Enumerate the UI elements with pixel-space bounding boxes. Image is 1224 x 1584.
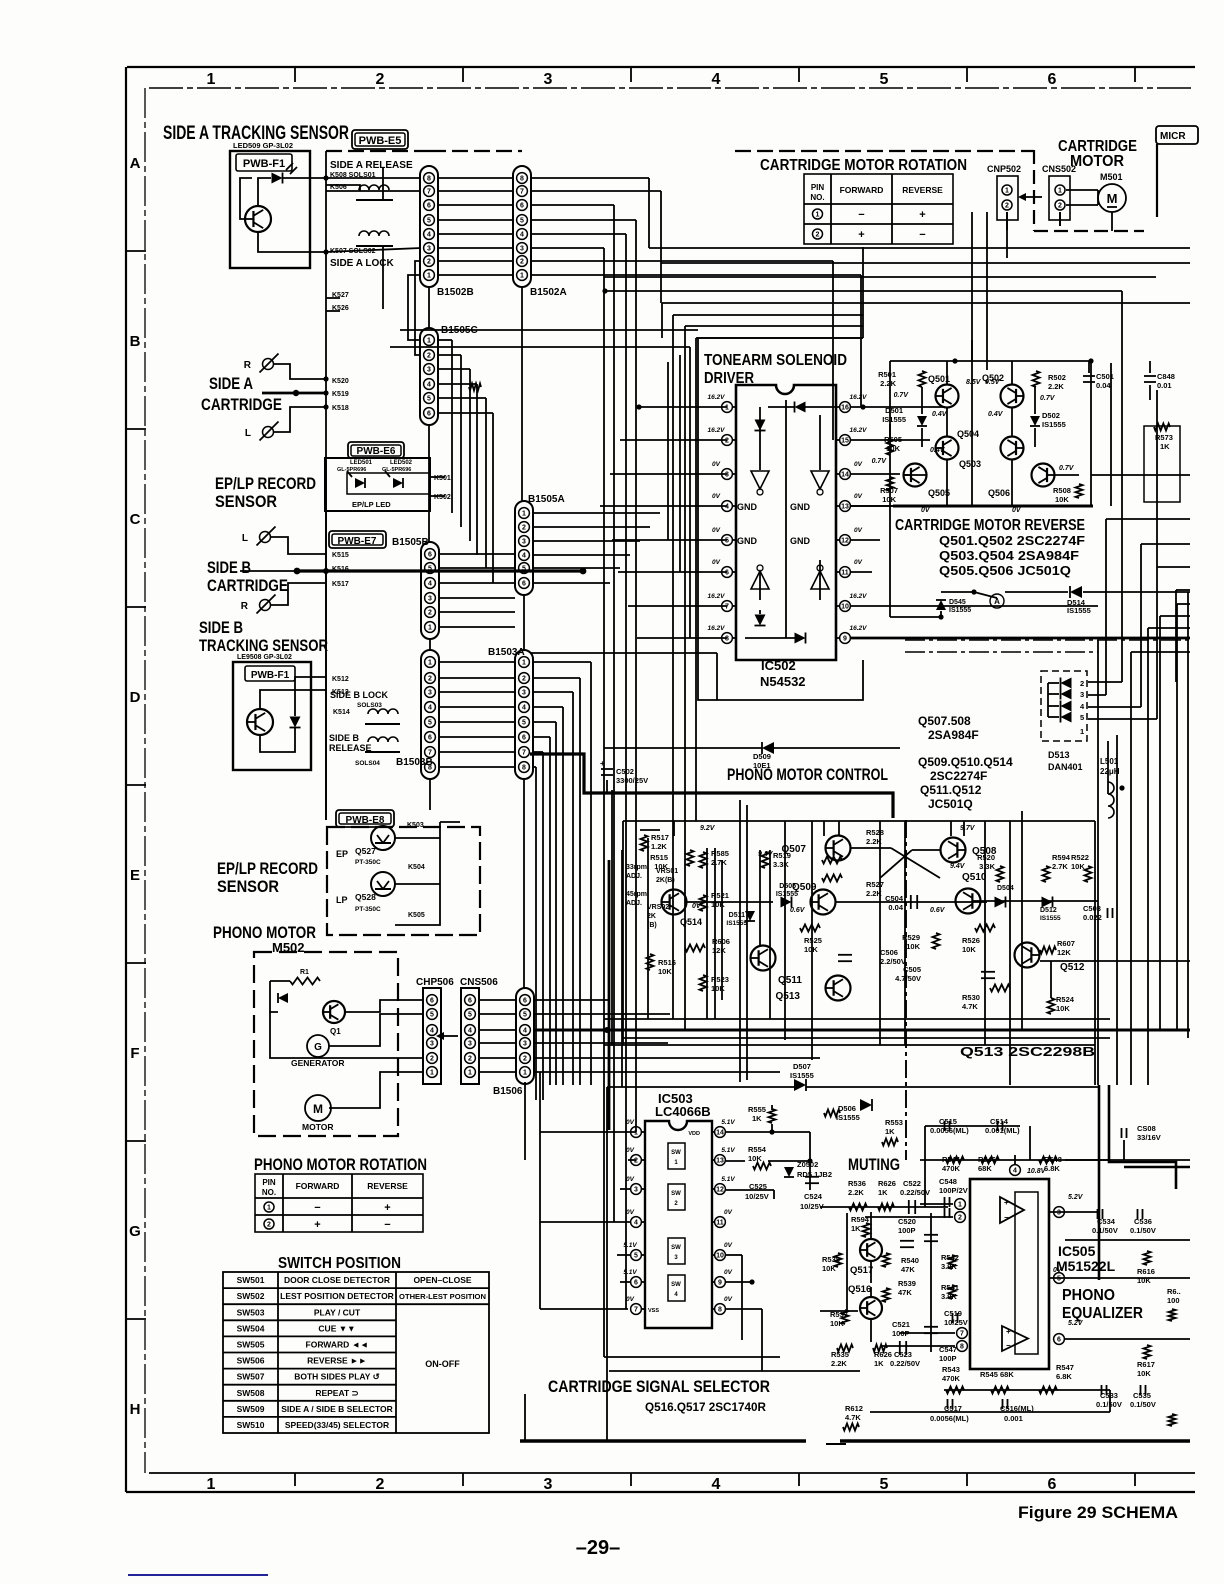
svg-text:16.2V: 16.2V (708, 427, 726, 434)
svg-text:1K: 1K (752, 1114, 762, 1123)
svg-text:1: 1 (267, 1205, 271, 1212)
svg-text:10K: 10K (748, 1154, 762, 1163)
svg-text:0.4V: 0.4V (988, 411, 1004, 418)
svg-text:3: 3 (544, 1476, 553, 1493)
svg-text:B1505B: B1505B (392, 537, 429, 548)
svg-text:Figure 29 SCHEMA: Figure 29 SCHEMA (1018, 1503, 1178, 1522)
svg-text:CNP502: CNP502 (987, 164, 1021, 174)
svg-text:1: 1 (522, 660, 526, 667)
svg-text:VSS: VSS (648, 1308, 659, 1314)
svg-text:GENERATOR: GENERATOR (291, 1058, 345, 1068)
svg-text:IS1555: IS1555 (1067, 606, 1091, 615)
svg-text:10: 10 (841, 604, 849, 611)
svg-text:R525: R525 (804, 936, 822, 945)
svg-text:2: 2 (520, 259, 524, 266)
svg-text:R543: R543 (942, 1365, 960, 1374)
svg-text:0V: 0V (854, 461, 863, 468)
svg-text:D507: D507 (793, 1062, 811, 1071)
svg-text:D512: D512 (1040, 907, 1057, 914)
svg-text:C535: C535 (1133, 1391, 1151, 1400)
svg-text:10K: 10K (711, 984, 725, 993)
svg-text:5: 5 (523, 1012, 527, 1019)
svg-text:7: 7 (522, 750, 526, 757)
svg-text:4: 4 (427, 382, 431, 389)
svg-text:8: 8 (718, 1307, 722, 1314)
svg-text:8: 8 (725, 636, 729, 643)
svg-text:B1502A: B1502A (530, 287, 567, 298)
svg-text:Q1: Q1 (330, 1027, 341, 1036)
svg-text:R1: R1 (300, 969, 309, 976)
svg-text:R520: R520 (977, 853, 995, 862)
svg-text:EQUALIZER: EQUALIZER (1062, 1305, 1143, 1322)
svg-text:2: 2 (725, 438, 729, 445)
svg-text:C848: C848 (1157, 372, 1175, 381)
svg-text:C533: C533 (1100, 1391, 1118, 1400)
svg-text:G: G (314, 1042, 322, 1053)
svg-text:D505: D505 (779, 883, 796, 890)
svg-text:R515: R515 (650, 853, 668, 862)
svg-text:C: C (130, 511, 141, 528)
svg-text:2.2K: 2.2K (880, 379, 896, 388)
svg-text:0.1/50V: 0.1/50V (1096, 1400, 1122, 1409)
svg-text:3.3K: 3.3K (773, 860, 789, 869)
svg-text:R626: R626 (878, 1179, 896, 1188)
svg-text:Q511.Q512: Q511.Q512 (920, 783, 982, 797)
svg-text:PWB-E8: PWB-E8 (346, 815, 385, 826)
svg-text:5: 5 (522, 720, 526, 727)
svg-text:Q505.Q506 JC501Q: Q505.Q506 JC501Q (939, 564, 1071, 578)
svg-text:16.2V: 16.2V (850, 625, 868, 632)
svg-text:SW510: SW510 (237, 1420, 265, 1430)
svg-text:2K(B): 2K(B) (656, 877, 675, 884)
svg-text:IS1555: IS1555 (790, 1071, 814, 1080)
svg-text:2.2K: 2.2K (831, 1359, 847, 1368)
svg-text:2: 2 (427, 259, 431, 266)
svg-text:8.5V: 8.5V (966, 379, 982, 386)
svg-text:4: 4 (712, 1476, 721, 1493)
svg-text:E: E (130, 867, 140, 884)
svg-text:0V: 0V (712, 493, 721, 500)
svg-text:NO.: NO. (810, 193, 824, 202)
svg-text:K517: K517 (332, 581, 349, 588)
svg-text:IC505: IC505 (1058, 1243, 1096, 1259)
svg-text:TRACKING SENSOR: TRACKING SENSOR (199, 636, 328, 655)
svg-text:2: 2 (634, 1158, 638, 1165)
svg-text:2: 2 (376, 71, 385, 88)
svg-text:3: 3 (1057, 1210, 1061, 1217)
svg-text:B1506: B1506 (493, 1086, 523, 1097)
svg-text:LEST POSITION DETECTOR: LEST POSITION DETECTOR (280, 1291, 394, 1301)
svg-text:VRS01: VRS01 (656, 868, 678, 875)
svg-text:K512: K512 (332, 676, 349, 683)
svg-text:R522: R522 (1071, 853, 1089, 862)
svg-text:1K: 1K (874, 1359, 884, 1368)
svg-text:15: 15 (841, 438, 849, 445)
svg-text:0.7V: 0.7V (1059, 465, 1075, 472)
svg-text:D511: D511 (729, 912, 745, 919)
svg-text:C502: C502 (616, 767, 634, 776)
svg-text:Z0502: Z0502 (797, 1160, 818, 1169)
svg-text:Q513 2SC2298B: Q513 2SC2298B (960, 1044, 1095, 1059)
svg-text:6: 6 (725, 570, 729, 577)
svg-text:IS1555: IS1555 (949, 607, 971, 614)
svg-text:0V: 0V (854, 559, 863, 566)
svg-text:R607: R607 (1057, 939, 1075, 948)
svg-text:3: 3 (428, 690, 432, 697)
svg-text:A: A (130, 155, 141, 172)
svg-text:D513: D513 (1048, 750, 1070, 760)
svg-text:10K: 10K (1056, 1004, 1070, 1013)
svg-text:1: 1 (958, 1202, 962, 1209)
svg-text:3: 3 (1080, 690, 1084, 699)
svg-text:C520: C520 (898, 1217, 916, 1226)
svg-text:1: 1 (523, 1070, 527, 1077)
svg-text:2: 2 (267, 1222, 271, 1229)
svg-text:1K: 1K (885, 1127, 895, 1136)
svg-text:NO.: NO. (262, 1188, 276, 1197)
svg-text:0.6V: 0.6V (790, 907, 806, 914)
svg-text:2: 2 (958, 1215, 962, 1222)
svg-text:Q528: Q528 (355, 892, 376, 902)
svg-text:R526: R526 (962, 936, 980, 945)
svg-text:2: 2 (428, 610, 432, 617)
svg-text:9.2V: 9.2V (700, 825, 716, 832)
svg-text:B1503A: B1503A (488, 647, 525, 658)
svg-text:1: 1 (430, 1070, 434, 1077)
svg-text:0.4V: 0.4V (932, 411, 948, 418)
svg-text:5.1V: 5.1V (721, 1147, 735, 1154)
svg-text:1.2K: 1.2K (651, 842, 667, 851)
svg-text:5: 5 (430, 1012, 434, 1019)
svg-text:6: 6 (430, 998, 434, 1005)
svg-text:R612: R612 (845, 1404, 863, 1413)
svg-text:SW509: SW509 (237, 1404, 265, 1414)
svg-text:2: 2 (523, 1056, 527, 1063)
svg-text:1: 1 (1058, 188, 1062, 195)
svg-text:4.7K: 4.7K (845, 1413, 861, 1422)
svg-text:D509: D509 (753, 752, 771, 761)
svg-text:0V: 0V (724, 1269, 733, 1276)
svg-text:Q513: Q513 (776, 991, 801, 1002)
svg-text:−: − (919, 229, 925, 241)
svg-text:6: 6 (522, 581, 526, 588)
svg-text:−: − (858, 209, 864, 221)
svg-text:2: 2 (427, 353, 431, 360)
svg-text:3: 3 (427, 246, 431, 253)
svg-text:MICR: MICR (1160, 131, 1186, 142)
svg-text:1: 1 (816, 212, 820, 219)
svg-text:4: 4 (468, 1028, 472, 1035)
svg-text:C524: C524 (804, 1192, 823, 1201)
svg-text:3: 3 (430, 1041, 434, 1048)
svg-text:LE9508 GP-3L02: LE9508 GP-3L02 (237, 654, 292, 661)
svg-text:JC501Q: JC501Q (928, 797, 973, 811)
svg-text:1: 1 (522, 511, 526, 518)
svg-text:R519: R519 (773, 851, 791, 860)
svg-text:CS08: CS08 (1137, 1124, 1156, 1133)
svg-text:REVERSE: REVERSE (367, 1181, 408, 1191)
svg-text:0.7V: 0.7V (1040, 395, 1056, 402)
svg-text:ADJ.: ADJ. (626, 900, 642, 907)
svg-text:SW507: SW507 (237, 1372, 265, 1382)
svg-text:K514: K514 (333, 709, 350, 716)
svg-text:4: 4 (522, 705, 526, 712)
svg-text:Q509.Q510.Q514: Q509.Q510.Q514 (918, 755, 1013, 769)
svg-text:10K: 10K (882, 495, 896, 504)
svg-text:6: 6 (428, 552, 432, 559)
svg-text:10K: 10K (1055, 495, 1069, 504)
svg-text:4: 4 (634, 1220, 638, 1227)
svg-text:0V: 0V (854, 527, 863, 534)
svg-text:IS1555: IS1555 (1040, 915, 1061, 922)
svg-text:16.2V: 16.2V (708, 394, 726, 401)
svg-text:K504: K504 (408, 864, 425, 871)
svg-text:0.04: 0.04 (888, 903, 903, 912)
svg-text:0.1/50V: 0.1/50V (1130, 1400, 1156, 1409)
svg-text:7: 7 (725, 604, 729, 611)
svg-text:CARTRIDGE: CARTRIDGE (201, 395, 282, 414)
svg-text:4: 4 (427, 232, 431, 239)
svg-text:N54532: N54532 (760, 674, 806, 689)
svg-text:7: 7 (634, 1307, 638, 1314)
svg-text:D545: D545 (949, 599, 966, 606)
svg-text:5.1V: 5.1V (721, 1119, 735, 1126)
svg-text:4.7/50V: 4.7/50V (895, 974, 921, 983)
svg-text:10E1: 10E1 (753, 761, 771, 770)
svg-text:CNS502: CNS502 (1042, 164, 1076, 174)
svg-text:6: 6 (427, 203, 431, 210)
svg-text:5: 5 (427, 396, 431, 403)
svg-text:GND: GND (737, 536, 758, 546)
svg-text:5: 5 (428, 720, 432, 727)
svg-text:B1502B: B1502B (437, 287, 474, 298)
svg-text:12K: 12K (1057, 948, 1071, 957)
svg-text:EP/LP LED: EP/LP LED (352, 500, 391, 509)
svg-text:IS1555: IS1555 (836, 1113, 860, 1122)
svg-text:M: M (313, 1102, 323, 1116)
svg-text:6.8K: 6.8K (1056, 1372, 1072, 1381)
svg-text:−: − (384, 1219, 390, 1231)
svg-text:Q506: Q506 (988, 488, 1010, 498)
svg-text:4: 4 (428, 581, 432, 588)
svg-text:VDD: VDD (688, 1131, 700, 1137)
svg-text:D504: D504 (997, 885, 1014, 892)
svg-text:1: 1 (428, 660, 432, 667)
svg-text:9: 9 (718, 1280, 722, 1287)
svg-text:F: F (130, 1045, 139, 1062)
svg-text:R: R (241, 601, 249, 612)
svg-text:1: 1 (207, 71, 216, 88)
svg-text:REVERSE: REVERSE (902, 185, 943, 195)
svg-text:7: 7 (428, 750, 432, 757)
svg-text:R535: R535 (831, 1350, 849, 1359)
svg-text:GND: GND (737, 502, 758, 512)
svg-text:K501: K501 (434, 475, 451, 482)
svg-text:3: 3 (428, 596, 432, 603)
svg-text:K505: K505 (408, 912, 425, 919)
svg-text:DOOR CLOSE DETECTOR: DOOR CLOSE DETECTOR (284, 1275, 390, 1285)
svg-text:0V: 0V (626, 1176, 635, 1183)
svg-text:DAN401: DAN401 (1048, 762, 1083, 772)
svg-text:2: 2 (816, 232, 820, 239)
svg-text:8: 8 (522, 765, 526, 772)
svg-text:13: 13 (841, 504, 849, 511)
svg-text:BOTH SIDES PLAY ↺: BOTH SIDES PLAY ↺ (294, 1372, 380, 1382)
svg-text:+: + (600, 759, 605, 768)
svg-text:SW503: SW503 (237, 1307, 265, 1317)
svg-text:R: R (244, 360, 252, 371)
svg-text:OPEN–CLOSE: OPEN–CLOSE (413, 1275, 471, 1285)
svg-text:C515: C515 (939, 1117, 957, 1126)
svg-text:R616: R616 (1137, 1267, 1155, 1276)
svg-text:+: + (1006, 1327, 1011, 1336)
svg-text:R594: R594 (1052, 853, 1071, 862)
svg-text:4: 4 (712, 71, 721, 88)
svg-text:100P: 100P (898, 1226, 916, 1235)
svg-text:PLAY / CUT: PLAY / CUT (314, 1307, 361, 1317)
svg-text:0V: 0V (626, 1296, 635, 1303)
svg-text:1: 1 (1005, 188, 1009, 195)
svg-text:SW506: SW506 (237, 1356, 265, 1366)
svg-text:0V: 0V (712, 461, 721, 468)
svg-text:SIDE B: SIDE B (199, 618, 243, 637)
svg-text:9.7V: 9.7V (960, 825, 976, 832)
svg-text:470K: 470K (942, 1374, 961, 1383)
svg-text:FORWARD: FORWARD (296, 1181, 340, 1191)
svg-text:B1503B: B1503B (396, 757, 433, 768)
svg-text:0V: 0V (712, 527, 721, 534)
svg-text:0.01: 0.01 (1157, 381, 1172, 390)
svg-text:PHONO MOTOR CONTROL: PHONO MOTOR CONTROL (727, 765, 888, 784)
svg-text:IS1555: IS1555 (726, 920, 747, 927)
svg-text:K518: K518 (332, 405, 349, 412)
svg-text:6: 6 (1048, 71, 1057, 88)
svg-text:11: 11 (716, 1220, 724, 1227)
svg-text:R530: R530 (962, 993, 980, 1002)
svg-text:SIDE B LOCK: SIDE B LOCK (330, 690, 389, 700)
svg-text:PWB-E6: PWB-E6 (357, 446, 396, 457)
svg-text:470K: 470K (942, 1164, 961, 1173)
svg-text:0V: 0V (724, 1242, 733, 1249)
svg-text:R508: R508 (1053, 486, 1071, 495)
svg-text:3: 3 (522, 690, 526, 697)
svg-text:16.2V: 16.2V (708, 625, 726, 632)
svg-text:R536: R536 (848, 1179, 866, 1188)
svg-text:Q516.Q517 2SC1740R: Q516.Q517 2SC1740R (645, 1400, 766, 1414)
svg-text:SIDE A RELEASE: SIDE A RELEASE (330, 160, 413, 171)
svg-text:R585: R585 (711, 849, 729, 858)
svg-text:C521: C521 (892, 1320, 910, 1329)
svg-text:5: 5 (880, 71, 889, 88)
svg-text:−: − (314, 1202, 320, 1214)
svg-text:R527: R527 (866, 880, 884, 889)
svg-text:3.3K: 3.3K (979, 862, 995, 871)
svg-text:REVERSE ►►: REVERSE ►► (307, 1356, 367, 1366)
svg-text:−: − (1006, 1341, 1011, 1350)
svg-text:4: 4 (430, 1028, 434, 1035)
svg-text:1K: 1K (1160, 442, 1170, 451)
svg-text:14: 14 (841, 472, 849, 479)
svg-text:CUE ▼▼: CUE ▼▼ (318, 1323, 355, 1333)
svg-text:16.2V: 16.2V (850, 394, 868, 401)
svg-text:0V: 0V (854, 493, 863, 500)
svg-text:3: 3 (520, 246, 524, 253)
svg-text:1: 1 (427, 273, 431, 280)
svg-text:2.7K: 2.7K (1052, 862, 1068, 871)
svg-text:–29–: –29– (576, 1537, 621, 1559)
svg-text:2: 2 (468, 1056, 472, 1063)
svg-text:PT-350C: PT-350C (355, 906, 381, 913)
svg-text:12: 12 (841, 538, 849, 545)
svg-text:Q511: Q511 (778, 975, 802, 986)
svg-text:FORWARD: FORWARD (840, 185, 884, 195)
svg-text:C506: C506 (880, 948, 898, 957)
svg-text:R617: R617 (1137, 1360, 1155, 1369)
svg-text:5: 5 (1057, 1276, 1061, 1283)
svg-text:11: 11 (841, 570, 849, 577)
svg-text:MUTING: MUTING (848, 1155, 900, 1174)
svg-text:6: 6 (523, 998, 527, 1005)
svg-text:0.7V: 0.7V (872, 458, 888, 465)
svg-text:R521: R521 (711, 891, 729, 900)
svg-text:2: 2 (428, 676, 432, 683)
svg-text:2: 2 (1080, 679, 1084, 688)
svg-text:0.22/50V: 0.22/50V (890, 1359, 920, 1368)
svg-text:GL-5PR696: GL-5PR696 (337, 467, 366, 473)
svg-text:47K: 47K (901, 1265, 915, 1274)
svg-text:D506: D506 (838, 1104, 856, 1113)
svg-text:Q517: Q517 (850, 1265, 873, 1276)
svg-text:0.1/50V: 0.1/50V (1130, 1226, 1156, 1235)
svg-text:3: 3 (634, 1187, 638, 1194)
svg-text:K515: K515 (332, 552, 349, 559)
svg-text:SOLS04: SOLS04 (355, 760, 380, 767)
svg-text:Q527: Q527 (355, 846, 376, 856)
svg-text:G: G (129, 1223, 141, 1240)
svg-text:0.1/50V: 0.1/50V (1092, 1226, 1118, 1235)
svg-text:SPEED(33/45) SELECTOR: SPEED(33/45) SELECTOR (285, 1420, 389, 1430)
svg-text:H: H (130, 1401, 141, 1418)
svg-text:M: M (1107, 191, 1118, 206)
svg-text:R524: R524 (1056, 995, 1075, 1004)
svg-text:33/16V: 33/16V (1137, 1133, 1161, 1142)
svg-text:C548: C548 (939, 1177, 957, 1186)
svg-text:K519: K519 (332, 391, 349, 398)
svg-text:K503: K503 (407, 822, 424, 829)
svg-text:13: 13 (716, 1158, 724, 1165)
svg-text:8: 8 (520, 176, 524, 183)
svg-text:4: 4 (520, 232, 524, 239)
svg-text:C525: C525 (749, 1182, 767, 1191)
svg-text:CARTRIDGE MOTOR ROTATION: CARTRIDGE MOTOR ROTATION (760, 157, 967, 174)
svg-text:R547: R547 (1056, 1363, 1074, 1372)
svg-text:SIDE A / SIDE B SELECTOR: SIDE A / SIDE B SELECTOR (281, 1404, 393, 1414)
svg-text:10: 10 (716, 1253, 724, 1260)
svg-text:IS1555: IS1555 (882, 415, 906, 424)
svg-text:+: + (384, 1202, 390, 1214)
svg-text:SIDE B: SIDE B (329, 733, 360, 743)
svg-text:PT-350C: PT-350C (355, 859, 381, 866)
svg-text:0V: 0V (712, 559, 721, 566)
svg-text:0V: 0V (626, 1147, 635, 1154)
svg-text:2: 2 (430, 1056, 434, 1063)
svg-text:L: L (245, 428, 251, 439)
svg-text:0.0056(ML): 0.0056(ML) (930, 1414, 969, 1423)
svg-text:6: 6 (522, 735, 526, 742)
svg-text:6: 6 (428, 735, 432, 742)
svg-text:C514: C514 (990, 1117, 1009, 1126)
svg-text:1: 1 (428, 625, 432, 632)
